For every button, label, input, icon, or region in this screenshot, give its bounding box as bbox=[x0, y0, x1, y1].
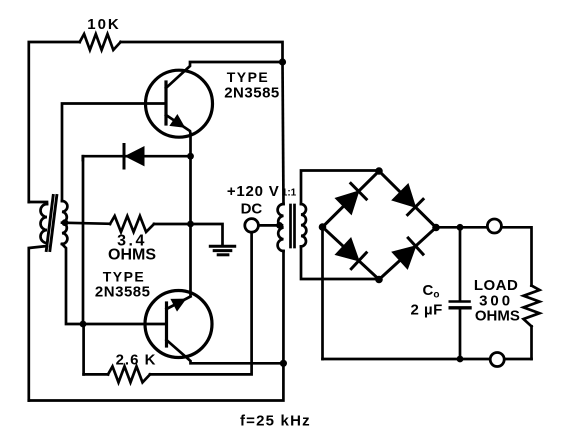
wire: 2.6K to +120V terminal bbox=[150, 233, 252, 375]
resistor load 300 ohms bbox=[524, 286, 540, 327]
svg-text:2N3585: 2N3585 bbox=[224, 85, 280, 102]
transistor Q2 emitter arrow bbox=[173, 300, 184, 309]
transformer T2 core bbox=[289, 205, 292, 247]
node: Q2 base node junction bbox=[80, 321, 87, 328]
wire: T2 secondary top to bridge top vertex bbox=[301, 171, 379, 205]
wire: output bottom rail bbox=[323, 358, 532, 361]
svg-text:f=25 kHz: f=25 kHz bbox=[240, 413, 311, 430]
terminal: output bottom circle bbox=[490, 353, 504, 367]
wire: T2 secondary bottom to bridge bottom vertex bbox=[301, 247, 379, 280]
wire: D1 anode-side vertical to Q2 base node bbox=[82, 156, 85, 324]
svg-text:1:1: 1:1 bbox=[282, 188, 297, 199]
wire: right rail below load bbox=[530, 326, 533, 359]
resistor R1 10K bbox=[80, 34, 121, 50]
transistor Q2 collector bbox=[167, 340, 284, 363]
transistor Q2 emitter bbox=[167, 297, 191, 310]
terminal: output top circle bbox=[487, 219, 501, 233]
transformer T1 core bbox=[46, 196, 53, 251]
node: bridge left vertex bbox=[319, 223, 327, 231]
wire: center tap to 3.4 ohm resistor bbox=[62, 223, 110, 224]
transformer T1 secondary winding (right, center-tapped) bbox=[62, 201, 67, 244]
node: Q1 collector junction on rail bbox=[279, 58, 286, 65]
diode CR3 (left to bottom edge) bbox=[337, 240, 358, 260]
wire: rail from Q1 collector node down to T2 primary bbox=[283, 62, 284, 204]
wire: top rail left segment bbox=[29, 42, 80, 202]
transistor Q2 base bar bbox=[165, 303, 168, 346]
wire: bridge left vertex down to output bottom rail bbox=[321, 227, 324, 359]
svg-text:2 µF: 2 µF bbox=[411, 302, 443, 319]
transistor Q1 (2N3585) circle bbox=[146, 70, 213, 137]
wire: T2 primary bottom to bottom rail bbox=[29, 251, 284, 401]
node: emitter bus / 3.4 ohm junction bbox=[187, 221, 194, 228]
ground symbol bbox=[210, 245, 234, 248]
svg-text:10K: 10K bbox=[87, 16, 121, 33]
wire: output top rail bbox=[436, 227, 532, 285]
node: capacitor top junction bbox=[457, 224, 464, 231]
wire: +120V terminal to T2 primary center tap bbox=[258, 224, 282, 227]
diode CR4 (bottom to right edge) bbox=[394, 247, 415, 267]
node: center tap junction bbox=[276, 222, 283, 229]
diode D1 wire bbox=[83, 156, 191, 160]
svg-text:TYPE: TYPE bbox=[227, 69, 270, 85]
node: bridge top vertex bbox=[375, 167, 383, 175]
wire: T1 secondary top to Q1 base bbox=[62, 104, 166, 202]
terminal: +120V DC input circle bbox=[245, 219, 259, 233]
node: Q2 collector junction on rail bbox=[280, 360, 287, 367]
resistor R2 3.4 OHMS bbox=[110, 216, 154, 232]
resistor R3 2.6K bbox=[108, 366, 150, 382]
diode CR2 (top to right edge) bbox=[394, 186, 415, 206]
transistor Q1 collector bbox=[166, 62, 283, 88]
transistor Q1 base bar bbox=[164, 82, 167, 124]
diode D1 (points left) bbox=[125, 146, 145, 166]
svg-text:2.6 K: 2.6 K bbox=[116, 352, 157, 369]
transistor Q1 emitter arrow bbox=[172, 117, 183, 127]
wire: bridge edges bbox=[323, 171, 437, 280]
transformer T1 primary winding (left, in series with left rail) bbox=[29, 202, 47, 204]
svg-text:OHMS: OHMS bbox=[475, 308, 520, 325]
wire: top rail right segment bbox=[121, 42, 283, 62]
transformer T2 primary winding (bumps left) bbox=[278, 204, 284, 251]
node: capacitor bottom junction bbox=[457, 356, 464, 363]
node: D1 to emitter bus junction bbox=[187, 153, 194, 160]
wire: 3.4 ohms to ground corner bbox=[154, 224, 223, 245]
transistor Q2 (2N3585) circle bbox=[145, 291, 212, 358]
wire: emitter bus between Q1 and Q2 bbox=[189, 134, 192, 296]
svg-text:TYPE: TYPE bbox=[103, 269, 146, 285]
wire: T1 secondary bottom to Q2 base bbox=[62, 244, 167, 324]
node: bridge right vertex bbox=[432, 224, 440, 232]
capacitor Co bottom lead bbox=[459, 308, 462, 359]
svg-text:+120 V: +120 V bbox=[227, 183, 280, 200]
capacitor Co top lead bbox=[459, 227, 462, 301]
capacitor Co plates bbox=[450, 300, 470, 303]
svg-text:OHMS: OHMS bbox=[108, 247, 156, 264]
diode CR1 (left to top edge) bbox=[337, 192, 358, 213]
node: T1 center tap bbox=[62, 219, 69, 226]
transformer T2 secondary winding (bumps right) bbox=[301, 204, 306, 247]
wire: Q2 base node down to 2.6K bbox=[82, 324, 85, 374]
transistor Q1 emitter bbox=[166, 115, 191, 134]
svg-text:DC: DC bbox=[241, 201, 263, 218]
svg-text:2N3585: 2N3585 bbox=[95, 284, 151, 301]
node: bridge bottom vertex bbox=[375, 276, 383, 284]
